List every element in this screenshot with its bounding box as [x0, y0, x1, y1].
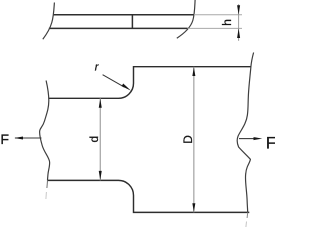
force F right arrowhead	[254, 137, 263, 140]
top bar bottom edge	[49, 27, 188, 29]
top bar left break curve	[43, 3, 55, 40]
h bottom arrow	[237, 28, 240, 38]
dimension D top arrow	[192, 67, 195, 76]
svg-text:F: F	[266, 133, 275, 152]
h top arrow	[237, 5, 240, 15]
left break wavy line	[40, 81, 50, 181]
force F right arrow line	[239, 138, 254, 140]
fillet radius r leader arrowhead	[122, 84, 131, 91]
main outline upper: narrow top edge, fillet r, step edge, wide top edge	[49, 67, 251, 99]
dimension D line	[193, 67, 195, 213]
svg-text:h: h	[220, 19, 234, 26]
dimension d line	[99, 98, 101, 180]
force F left arrow line	[15, 137, 42, 139]
main outline lower: narrow bottom edge, fillet, step edge, wide bottom edge	[48, 180, 250, 212]
right break wavy line	[237, 53, 254, 213]
svg-text:D: D	[181, 135, 195, 144]
top bar right break curve	[177, 0, 195, 38]
svg-text:F: F	[0, 132, 9, 148]
force F left arrowhead	[14, 137, 23, 140]
h top extension line	[194, 14, 242, 16]
dimension d bottom arrow	[99, 171, 102, 180]
h bottom extension line	[188, 27, 242, 29]
fillet radius r leader line	[103, 75, 125, 88]
top bar top edge	[54, 14, 195, 16]
top bar step line	[131, 15, 133, 29]
dimension d top arrow	[99, 99, 102, 108]
h dimension line	[238, 4, 240, 41]
right break wavy faint tail	[246, 212, 249, 218]
svg-text:d: d	[87, 136, 101, 143]
dimension D bottom arrow	[192, 203, 195, 212]
left break wavy faint tail	[46, 180, 49, 188]
